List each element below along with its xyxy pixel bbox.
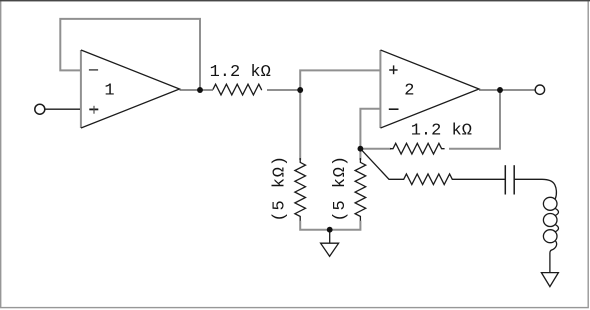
svg-text:2: 2 [404, 82, 414, 101]
svg-text:1: 1 [104, 82, 114, 101]
svg-text:1.2 kΩ: 1.2 kΩ [411, 122, 472, 141]
svg-text:1.2 kΩ: 1.2 kΩ [210, 63, 271, 82]
svg-text:(5 kΩ): (5 kΩ) [331, 155, 350, 222]
svg-text:(5 kΩ): (5 kΩ) [270, 155, 289, 222]
